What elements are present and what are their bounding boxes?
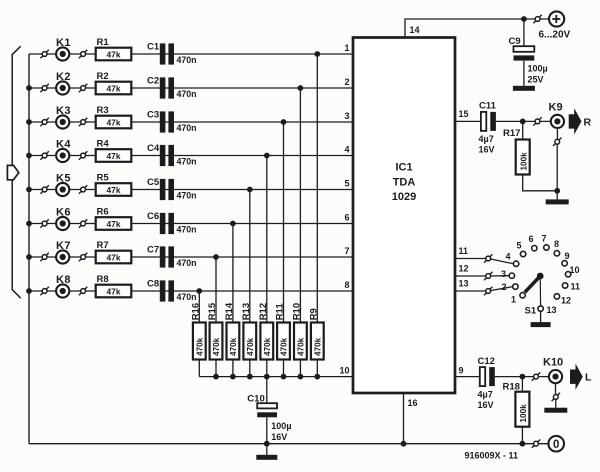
- junction R15 bottom: [213, 374, 219, 380]
- wire C12 to K10: [495, 376, 549, 378]
- svg-text:916009X - 11: 916009X - 11: [465, 451, 519, 461]
- node row 2 to R10: [298, 85, 304, 91]
- svg-text:4µ7: 4µ7: [478, 390, 493, 400]
- capacitor C12 4u7 16V: [478, 356, 495, 410]
- svg-text:R4: R4: [97, 139, 110, 150]
- svg-text:S1: S1: [525, 306, 537, 317]
- node row 5 to R13: [247, 187, 253, 193]
- plug pin 12: [484, 272, 492, 280]
- junction K9 ground: [554, 188, 560, 194]
- svg-text:R10: R10: [291, 303, 302, 320]
- junction bus row 2: [26, 85, 32, 91]
- svg-text:470k: 470k: [196, 337, 205, 356]
- ground below K9: [546, 199, 569, 204]
- svg-text:47k: 47k: [107, 253, 121, 263]
- junction R13 bottom: [247, 374, 253, 380]
- svg-text:3: 3: [344, 111, 349, 121]
- svg-text:C11: C11: [479, 101, 497, 112]
- svg-text:7: 7: [344, 246, 349, 256]
- svg-text:C2: C2: [147, 75, 159, 86]
- svg-text:15: 15: [459, 109, 469, 119]
- plug left of K1: [40, 50, 48, 58]
- plug before K9: [533, 117, 541, 125]
- ground below C10: [256, 455, 277, 460]
- junction C12 / R18: [520, 374, 526, 380]
- connector K4: [56, 139, 71, 163]
- svg-text:12: 12: [561, 296, 571, 306]
- resistor R4 47k: [96, 139, 132, 162]
- node row 4 to R12: [264, 153, 270, 159]
- svg-text:470n: 470n: [177, 224, 197, 234]
- svg-text:5: 5: [517, 241, 522, 251]
- resistor R16 470k: [190, 303, 205, 377]
- junction R18 rail: [520, 441, 526, 447]
- svg-text:470n: 470n: [177, 55, 197, 65]
- svg-text:6...20V: 6...20V: [539, 30, 571, 41]
- svg-text:25V: 25V: [528, 75, 544, 85]
- resistor R17 100k: [503, 121, 557, 190]
- connector K5: [56, 173, 71, 197]
- wire row 1 down to resistor: [316, 54, 318, 323]
- connector K6: [56, 207, 71, 231]
- node row 8 to R16: [196, 288, 202, 294]
- svg-text:12: 12: [459, 264, 469, 274]
- svg-text:C7: C7: [147, 244, 159, 255]
- svg-text:47k: 47k: [107, 219, 121, 229]
- resistor R15 470k: [207, 302, 222, 376]
- svg-text:1: 1: [344, 43, 349, 53]
- plug supply: [533, 15, 541, 23]
- op-amp IC1 TDA1029: [353, 38, 455, 394]
- svg-text:6: 6: [344, 212, 349, 222]
- svg-text:R: R: [584, 117, 592, 129]
- svg-text:470k: 470k: [263, 337, 272, 356]
- wire K10 sleeve to ground: [555, 399, 557, 407]
- ground rail (bottom): [29, 443, 548, 445]
- plug left of K6: [40, 219, 48, 227]
- connector K10: [543, 357, 563, 395]
- svg-text:R18: R18: [503, 382, 520, 393]
- svg-text:470k: 470k: [280, 337, 289, 356]
- junction R14 bottom: [230, 374, 236, 380]
- svg-text:470n: 470n: [177, 258, 197, 268]
- plug before 0 terminal: [532, 440, 540, 448]
- svg-text:47k: 47k: [107, 50, 121, 60]
- svg-text:47k: 47k: [107, 185, 121, 195]
- wire row 5 down to resistor: [249, 190, 251, 323]
- resistor R9 470k: [308, 308, 323, 376]
- junction bus row 7: [26, 254, 32, 260]
- junction R9 bottom: [314, 374, 320, 380]
- wire row 7: bus to IC pin 7: [29, 256, 353, 258]
- wire row 6 down to resistor: [232, 224, 234, 323]
- input arrow: [7, 165, 18, 179]
- svg-text:9: 9: [565, 251, 570, 261]
- svg-text:R2: R2: [97, 71, 109, 82]
- plug right of K7: [79, 253, 87, 261]
- svg-text:13: 13: [547, 305, 557, 315]
- svg-text:C3: C3: [147, 109, 159, 120]
- wire pin 16 to rail: [403, 393, 405, 444]
- capacitor C6 470n: [147, 211, 197, 234]
- wire pin 12 to S1 contact 3: [455, 275, 509, 277]
- svg-text:K10: K10: [543, 357, 563, 369]
- wire row 4 down to resistor: [266, 156, 268, 323]
- svg-text:0: 0: [553, 439, 559, 451]
- wire row 3: bus to IC pin 3: [29, 121, 353, 123]
- wire row 5: bus to IC pin 5: [29, 189, 353, 191]
- svg-text:R16: R16: [190, 303, 201, 320]
- wire row 1: bus to IC pin 1: [29, 53, 353, 55]
- capacitor C8 470n: [147, 278, 197, 301]
- svg-text:4: 4: [344, 144, 349, 154]
- wire pin 11 to S1 contact 4: [455, 259, 514, 264]
- connector K1: [56, 37, 71, 61]
- plug left of K3: [40, 118, 48, 126]
- wire row 4: bus to IC pin 4: [29, 155, 353, 157]
- wire pin 13 to S1 contact 2: [455, 287, 513, 291]
- svg-text:100µ: 100µ: [528, 64, 548, 74]
- resistor R3 47k: [96, 105, 132, 128]
- svg-text:R13: R13: [241, 303, 252, 320]
- plug left of K5: [40, 185, 48, 193]
- svg-text:16V: 16V: [479, 145, 495, 155]
- wire K9 sleeve to ground: [556, 144, 558, 199]
- wire row 7 down to resistor: [215, 257, 217, 323]
- svg-text:C12: C12: [478, 356, 495, 367]
- resistor R11 470k: [275, 303, 290, 377]
- svg-text:C1: C1: [147, 41, 160, 52]
- plug right of K8: [79, 287, 87, 295]
- connector K9: [549, 102, 565, 140]
- svg-text:11: 11: [571, 282, 581, 292]
- plug below K9: [553, 138, 561, 146]
- node row 7 to R15: [213, 254, 219, 260]
- ground below S1: [531, 322, 551, 327]
- wire row 8 down to resistor: [198, 291, 200, 323]
- terminal + supply: [549, 11, 564, 26]
- svg-text:C8: C8: [147, 278, 159, 289]
- plug right of K1: [79, 50, 87, 58]
- plug pin 11: [484, 254, 492, 262]
- capacitor C7 470n: [147, 244, 197, 267]
- plug left of K4: [40, 151, 48, 159]
- svg-text:8: 8: [344, 280, 349, 290]
- svg-text:11: 11: [459, 246, 469, 256]
- plug left of K7: [40, 253, 48, 261]
- capacitor C5 470n: [147, 177, 197, 200]
- svg-text:R1: R1: [97, 37, 110, 48]
- svg-text:13: 13: [459, 279, 469, 289]
- svg-text:R3: R3: [97, 105, 109, 116]
- svg-text:470k: 470k: [229, 337, 238, 356]
- wire pin 15 to C11: [455, 120, 481, 122]
- svg-text:R5: R5: [97, 173, 110, 184]
- plug left of K2: [40, 84, 48, 92]
- svg-text:L: L: [585, 372, 592, 384]
- resistor R13 470k: [241, 303, 256, 377]
- svg-text:5: 5: [344, 178, 349, 188]
- junction bus row 5: [26, 187, 32, 193]
- capacitor C3 470n: [147, 109, 197, 132]
- junction C10 rail: [264, 441, 270, 447]
- svg-text:1029: 1029: [392, 191, 416, 203]
- svg-text:470k: 470k: [314, 337, 323, 356]
- wire pin 9 to C12: [455, 376, 480, 378]
- resistor R6 47k: [96, 207, 132, 230]
- svg-text:4µ7: 4µ7: [479, 134, 494, 144]
- svg-text:16V: 16V: [478, 400, 494, 410]
- svg-text:1: 1: [511, 295, 516, 305]
- svg-text:8: 8: [554, 239, 559, 249]
- capacitor C11 4u7 16V: [479, 101, 497, 155]
- svg-text:100µ: 100µ: [271, 421, 291, 431]
- terminal 0 (ground): [548, 436, 564, 452]
- resistor R2 47k: [96, 71, 132, 94]
- wire row 2: bus to IC pin 2: [29, 87, 353, 89]
- svg-text:16V: 16V: [271, 432, 287, 442]
- node row 3 to R11: [281, 119, 287, 125]
- junction R12 bottom: [264, 374, 270, 380]
- capacitor C9 100u 25V: [509, 19, 548, 86]
- svg-text:14: 14: [410, 25, 420, 35]
- svg-text:470n: 470n: [177, 292, 197, 302]
- svg-text:47k: 47k: [107, 118, 121, 128]
- node row 6 to R14: [230, 221, 236, 227]
- svg-text:47k: 47k: [107, 151, 121, 161]
- connector K7: [56, 240, 71, 264]
- wire pin 14 to supply: [405, 19, 549, 38]
- junction bus row 8: [26, 288, 32, 294]
- svg-text:10: 10: [339, 365, 349, 375]
- junction R10 bottom: [298, 374, 304, 380]
- capacitor C2 470n: [147, 75, 197, 98]
- input bracket: [12, 46, 21, 298]
- wire C10 junction to ground: [266, 444, 268, 455]
- plug pin 13: [484, 287, 492, 295]
- plug right of K4: [79, 151, 87, 159]
- plug right of K2: [79, 84, 87, 92]
- ground below C9: [513, 86, 535, 91]
- svg-text:R12: R12: [258, 303, 269, 320]
- svg-text:TDA: TDA: [393, 177, 416, 189]
- svg-text:R15: R15: [207, 302, 218, 320]
- svg-text:3: 3: [501, 269, 506, 279]
- svg-text:C6: C6: [147, 211, 159, 222]
- wire row 3 down to resistor: [283, 122, 285, 323]
- svg-text:R17: R17: [503, 128, 520, 139]
- svg-text:470n: 470n: [177, 156, 197, 166]
- svg-text:100k: 100k: [519, 404, 528, 423]
- svg-text:C9: C9: [509, 36, 521, 47]
- svg-text:K9: K9: [549, 102, 563, 114]
- svg-text:4: 4: [506, 252, 511, 262]
- svg-text:C5: C5: [147, 177, 160, 188]
- switch S1 rotary: [501, 234, 580, 323]
- resistor R1 47k: [96, 37, 132, 60]
- junction bus row 6: [26, 221, 32, 227]
- svg-text:47k: 47k: [107, 287, 121, 297]
- svg-text:470n: 470n: [177, 123, 197, 133]
- junction C11 / R17: [520, 119, 526, 125]
- connector K3: [56, 105, 71, 129]
- junction bus row 3: [26, 119, 32, 125]
- svg-text:C4: C4: [147, 143, 160, 154]
- resistor R12 470k: [258, 303, 273, 377]
- plug right of K6: [79, 219, 87, 227]
- connector K2: [56, 71, 71, 95]
- output arrow R: [569, 108, 582, 134]
- svg-text:C10: C10: [247, 394, 264, 405]
- capacitor C10 100u 16V: [247, 377, 291, 444]
- resistor R8 47k: [96, 274, 132, 297]
- resistor R10 470k: [291, 303, 306, 377]
- svg-text:9: 9: [459, 365, 464, 375]
- plug right of K5: [79, 185, 87, 193]
- capacitor C1 470n: [147, 41, 197, 64]
- svg-text:R8: R8: [97, 274, 109, 285]
- svg-text:7: 7: [542, 234, 547, 244]
- node row 1 to R9: [314, 51, 320, 57]
- junction bus row 4: [26, 153, 32, 159]
- connector K8: [56, 274, 71, 298]
- svg-text:2: 2: [502, 282, 507, 292]
- wire row 2 down to resistor: [299, 88, 301, 323]
- svg-text:R6: R6: [97, 207, 109, 218]
- plug right of K3: [79, 118, 87, 126]
- junction pin16 rail: [401, 441, 407, 447]
- svg-text:R11: R11: [275, 303, 286, 321]
- output arrow L: [570, 364, 583, 390]
- wire row 6: bus to IC pin 6: [29, 223, 353, 225]
- plug below K10: [552, 393, 560, 401]
- resistor R14 470k: [224, 302, 239, 376]
- resistor R18 100k: [503, 377, 530, 444]
- wire row 8: bus to IC pin 8: [29, 290, 353, 292]
- svg-text:47k: 47k: [107, 84, 121, 94]
- svg-text:100k: 100k: [519, 152, 528, 171]
- svg-text:IC1: IC1: [395, 162, 412, 174]
- svg-text:10: 10: [570, 265, 580, 275]
- svg-text:470k: 470k: [212, 337, 221, 356]
- svg-text:R7: R7: [97, 240, 109, 251]
- ground bus (left vertical): [28, 54, 30, 444]
- ground below K10: [544, 408, 567, 413]
- plug left of K8: [40, 287, 48, 295]
- svg-text:6: 6: [529, 234, 534, 244]
- svg-text:470k: 470k: [297, 337, 306, 356]
- svg-text:470n: 470n: [177, 190, 197, 200]
- svg-text:470n: 470n: [177, 89, 197, 99]
- junction supply / C9: [521, 16, 527, 22]
- svg-text:R14: R14: [224, 302, 235, 320]
- svg-text:R9: R9: [308, 308, 319, 320]
- svg-text:16: 16: [408, 398, 418, 408]
- resistor R5 47k: [96, 173, 132, 196]
- svg-text:470k: 470k: [246, 337, 255, 356]
- junction R11 bottom: [281, 374, 287, 380]
- capacitor C4 470n: [147, 143, 197, 166]
- resistor R7 47k: [96, 240, 132, 263]
- wire resistor bus to IC pin 10: [199, 376, 353, 378]
- wire C11 to K9: [496, 120, 551, 122]
- svg-text:2: 2: [344, 77, 349, 87]
- plug before K10: [532, 372, 540, 380]
